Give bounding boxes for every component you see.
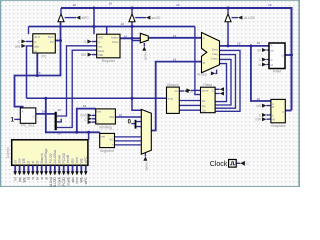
tunnel C (register) [87,40,91,44]
wire splitter pin2 stub [57,119,61,122]
wire flags zero in [179,100,200,102]
svg-text:st: st [40,177,44,180]
register Flags [201,87,216,113]
junction busD-regC [93,7,96,10]
svg-text:str: str [271,49,274,53]
svg-text:st: st [31,177,35,180]
wire graphics tunnel stubs [266,106,271,120]
block Branch [167,87,180,113]
wire bus2 to PC top pin [28,27,30,35]
bus width labels blue [37,2,272,136]
wire dest address [57,50,97,127]
svg-text:inst: inst [100,134,105,138]
svg-text:Adest: Adest [111,35,119,39]
wire ALU Y output [220,45,270,47]
svg-text:src: src [98,44,102,48]
tunnel imm 1 [88,113,92,117]
junction busD-driver2 [131,7,134,10]
svg-text:muxB: muxB [66,176,70,185]
svg-text:ImmA: ImmA [57,154,61,163]
svg-text:A: A [271,44,273,48]
svg-text:C: C [33,114,35,118]
svg-text:WE: WE [81,53,87,57]
junction RAM-D [290,54,293,57]
tunnel src2D [146,16,150,20]
svg-text:16: 16 [256,97,260,101]
svg-text:iow: iow [18,158,22,163]
svg-text:16: 16 [119,113,123,117]
svg-text:ALUop: ALUop [49,177,53,187]
wire inst to decoder pin [88,132,90,140]
tunnel flags out 2 [220,92,224,96]
component labels gray [21,55,285,153]
memory RAM [269,43,285,69]
wire driver3 output stub [227,8,229,14]
wire segment out 1 [115,136,142,138]
wire driver3 input column [227,22,229,46]
tunnel muxB select [143,156,147,160]
svg-text:WE: WE [79,158,83,163]
window edge right [298,0,300,187]
svg-text:stPC: stPC [84,177,88,185]
tunnel WE (register) [88,53,92,57]
svg-text:src2D: src2D [152,16,161,20]
svg-text:Zero: Zero [212,48,219,52]
svg-text:PC: PC [42,55,47,59]
decoder Control [12,140,88,166]
wire register WE tunnel stub [92,54,97,56]
clock glyph [230,162,235,165]
junction Y-graphics [249,44,252,47]
tunnel branch out [184,89,188,93]
svg-text:abs: abs [34,44,39,48]
svg-text:16: 16 [237,41,241,45]
bus D (data bus y=8) [61,8,292,110]
wire branch input long [27,97,167,99]
svg-text:16: 16 [123,34,127,38]
wire segment out 3 [115,144,142,146]
svg-text:PC2D: PC2D [62,177,66,186]
svg-text:16: 16 [83,104,87,108]
wire muxB select stub [144,153,146,157]
svg-text:ALU: ALU [34,35,40,39]
junction brin-instbus [44,97,47,100]
svg-text:16: 16 [42,109,46,113]
wire driver2 output stub [131,8,133,14]
wire ALU zero to flags [215,50,240,111]
driver stPC [58,14,64,22]
svg-text:Register: Register [102,59,116,63]
svg-text:WE: WE [98,53,103,57]
svg-text:abs: abs [15,44,21,48]
decoder tunnel labels gray rotated [14,176,89,188]
tunnel flags out 1 [220,87,224,91]
svg-text:ALU2Bus: ALU2Bus [53,150,57,164]
svg-text:WH: WH [109,115,114,119]
svg-text:ALUop: ALUop [197,73,207,77]
svg-text:A: A [22,109,24,113]
wire immReg output [115,116,141,118]
svg-text:Rsrc: Rsrc [112,40,119,44]
svg-text:D: D [282,53,284,57]
wire const0 stub [131,123,134,125]
wire src address [57,46,97,116]
junction bus2-regC [93,25,96,28]
pin name texts inside components [22,35,284,146]
tunnel muxA select [142,46,146,50]
junction busD-driver3 [227,7,230,10]
svg-text:muxB: muxB [144,162,148,170]
tunnel imm 2 [88,117,92,121]
wire register output [120,37,140,39]
svg-text:ld: ld [27,161,31,164]
svg-text:segment: segment [100,149,114,153]
wire driver3 enable [232,17,238,19]
wire RAM tunnel stubs [266,50,269,65]
adder PC_inc [20,108,36,123]
svg-text:16: 16 [257,41,261,45]
tunnel ioR (graphics) [262,104,266,108]
wire PC out to driver column [55,40,60,42]
wire muxA select stub [143,43,145,47]
svg-text:Control: Control [6,147,10,158]
svg-text:16: 16 [37,71,41,75]
svg-text:PC2SD: PC2SD [62,152,66,163]
svg-text:muxA: muxA [143,52,147,61]
svg-text:Graphics: Graphics [271,124,286,128]
tunnel imm 3 [88,120,92,124]
tunnel C (RAM) [262,58,266,62]
wire bus2 end down to Flags C [195,27,201,95]
svg-text:img: img [168,96,173,100]
svg-text:WE: WE [22,158,26,163]
svg-text:16: 16 [57,108,61,112]
wire clock output [236,162,240,164]
junction PCout [59,39,62,42]
tunnel ld (RAM) [262,63,266,67]
wire register C tunnel stub [92,41,97,43]
svg-text:Carry: Carry [211,57,219,61]
svg-text:PC_inc1: PC_inc1 [21,124,35,128]
svg-text:store: store [202,89,209,93]
svg-text:C: C [282,110,284,114]
driver ALU2D [225,14,231,22]
svg-text:imm: imm [75,157,79,163]
svg-text:Ne: Ne [202,104,206,108]
svg-text:16: 16 [73,3,77,7]
register PC [33,34,56,53]
junction bus2-col132 [131,25,134,28]
svg-text:ld: ld [259,63,262,67]
wire ALU neg to flags [215,55,235,109]
wire PC tunnel stubs [26,41,33,46]
tunnel store (flags) [186,88,190,92]
svg-text:abs: abs [71,158,75,164]
tunnel str (RAM) [262,48,266,52]
svg-text:imm: imm [75,177,79,183]
wire branch out stub [179,90,184,92]
svg-text:stPC: stPC [82,16,90,20]
svg-text:W: W [272,118,275,122]
junction Y-driver3 [227,44,230,47]
tunnel C (PC) [21,39,25,43]
svg-text:inst: inst [96,109,101,113]
wire muxA output to ALU A [148,37,201,39]
svg-text:16: 16 [121,22,125,26]
wire inst to segment pin [99,132,101,133]
svg-text:st: st [34,49,37,53]
svg-text:A: A [203,36,205,40]
svg-text:WE: WE [22,176,26,182]
driver src2D [129,14,135,22]
svg-text:Branch: Branch [167,83,178,87]
wire graphics address [251,46,271,101]
wire flags carry in [179,109,200,111]
register immReg [96,109,116,124]
svg-text:st: st [31,161,35,164]
svg-text:WD: WD [98,35,104,39]
block segment [100,133,115,147]
svg-text:ioR: ioR [256,104,261,108]
splitter const0 bar [135,120,137,129]
junction PCloop [36,74,39,77]
wire ALUop tunnel stub [215,70,216,74]
svg-text:16: 16 [176,3,180,7]
tunnel ALU2D [238,16,242,20]
wire register C pin up [93,8,95,34]
svg-text:Ze: Ze [202,99,206,103]
svg-text:al: al [44,177,48,180]
svg-text:storeFlags: storeFlags [44,148,48,163]
svg-text:ALU2D: ALU2D [244,16,255,20]
svg-text:ioW: ioW [256,118,262,122]
wire flags out stubs [215,89,220,93]
ALU U_ALU [202,33,220,73]
svg-text:ALU2D: ALU2D [53,177,57,187]
wire graphics output [285,110,291,112]
svg-text:Ca: Ca [202,108,206,112]
wire driver1 input column / PC loop [15,22,61,108]
wire PC_inc output [36,113,55,115]
svg-text:muxA: muxA [58,176,62,185]
window edge bottom [0,186,300,187]
tunnel ioW (graphics) [262,117,266,121]
svg-text:immReg: immReg [99,125,112,129]
wire register WD pin down [106,27,108,35]
junction regout-col132 [131,37,134,40]
svg-text:WE: WE [80,176,84,182]
wire flags neg in [179,104,200,106]
decoder output pins [13,165,87,175]
svg-text:ALUop: ALUop [49,153,53,163]
window edge top [0,0,300,2]
mux muxB [141,109,151,154]
clock Clock [229,160,237,168]
wire flags store stub [191,89,201,91]
svg-text:Next: Next [48,35,54,39]
register file U_Register [97,34,120,58]
svg-text:ld: ld [27,177,31,180]
wire RAM D out [285,54,292,56]
svg-text:ctr: ctr [175,89,178,93]
splitter S1 [55,112,57,130]
bus NextPC (y=26.5) [29,26,195,28]
tunnel name labels gray [15,16,262,166]
svg-text:16: 16 [173,34,177,38]
window edge left [0,0,1,187]
svg-text:Branch: Branch [40,153,44,163]
wire inst to immReg [77,109,96,133]
svg-text:imm: imm [80,114,87,118]
wire immReg tunnel stubs [92,115,96,122]
svg-text:C: C [271,58,273,62]
svg-text:R: R [272,105,274,109]
wire driver1 enable [65,17,76,19]
svg-text:iow: iow [18,177,22,183]
wire driver1 output stub [60,8,62,14]
tunnel abs (PC) [21,44,25,48]
svg-text:16: 16 [173,58,177,62]
wire const0 splitter stubs [136,122,141,127]
junction instbus-immReg [75,131,78,134]
tunnel ALUop [211,71,215,75]
svg-text:SO: SO [109,137,114,141]
svg-text:RAM: RAM [273,70,281,74]
svg-text:Clock: Clock [210,161,228,168]
wire ALU carry to flags [215,59,231,105]
decoder pin names blue rotated [13,148,88,163]
junction brin-col132 [131,97,134,100]
wire ALU ov to flags [215,64,226,102]
junction instbus-decoder [87,131,90,134]
wire const 1 stub [14,118,20,120]
svg-text:stPC: stPC [84,156,88,164]
svg-text:abs: abs [71,177,75,183]
svg-text:16: 16 [109,2,113,6]
tunnel C (graphics) [262,113,266,117]
wire inst bus [46,98,100,132]
wire ALU B path [151,62,201,131]
svg-text:Neg: Neg [212,52,218,56]
svg-text:B: B [203,61,205,65]
wire segment out 2 [115,140,142,142]
wire clock/src column x=133 [132,22,141,110]
mux muxA [140,33,148,43]
svg-text:ImmB: ImmB [66,155,70,163]
wire PC bottom pin to loop [36,53,38,76]
peripheral Graphics [271,99,285,122]
svg-text:Flags: Flags [203,83,212,87]
svg-text:Dest: Dest [98,49,104,53]
wire driver2 enable [135,17,146,19]
svg-text:16: 16 [57,132,61,136]
tunnel C (clock) [240,161,245,166]
tunnel stPC [76,16,80,20]
svg-text:16: 16 [268,3,272,7]
wire PC abs column [26,46,28,98]
wire muxA input 2 stub [132,40,140,42]
